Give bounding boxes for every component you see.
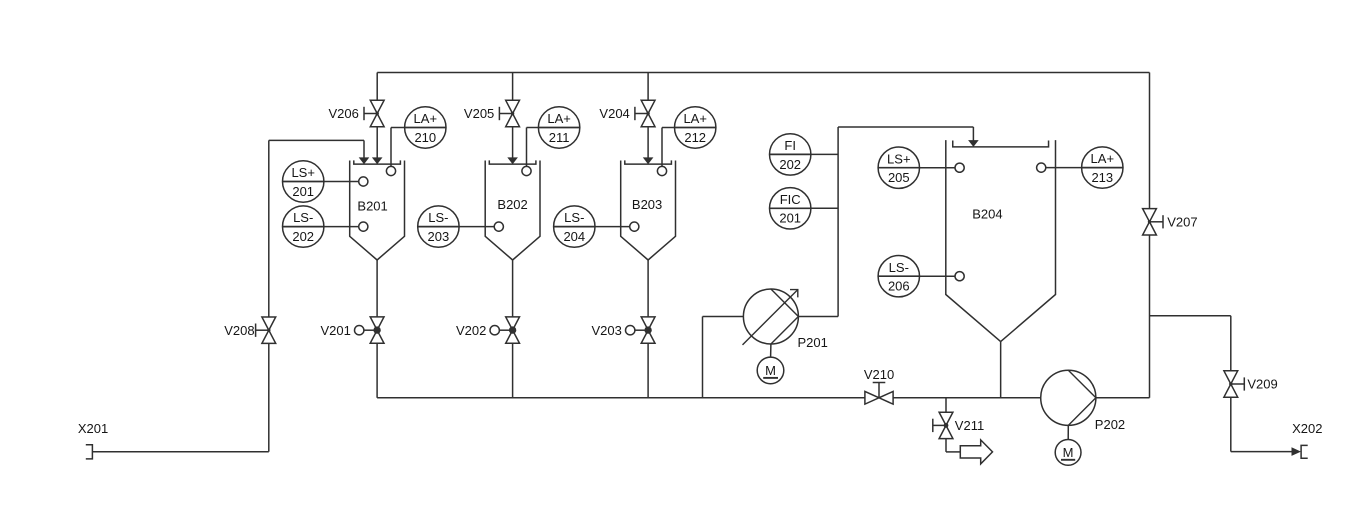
valve V210 xyxy=(865,391,879,404)
wire X201 to riser xyxy=(92,451,268,453)
valve V209 xyxy=(1224,371,1238,384)
wire LA+ 211 elbow to tank nozzle xyxy=(527,127,539,129)
instrument LS- 204 xyxy=(554,206,595,247)
svg-text:V202: V202 xyxy=(456,323,486,338)
nozzle for LA+ 211 xyxy=(522,166,531,175)
wire LS+ 205 to B204 nozzle xyxy=(920,167,960,169)
pump P201 internal chords xyxy=(771,289,799,317)
valve V205 xyxy=(506,100,520,113)
svg-text:LS-: LS- xyxy=(293,210,313,225)
svg-text:B202: B202 xyxy=(497,197,527,212)
instrument FIC 201 xyxy=(770,188,811,229)
inlet arrow into tank at V205 xyxy=(507,157,518,164)
wire branch down to V211 xyxy=(945,398,947,412)
wire B204 feed top line xyxy=(838,126,973,128)
svg-text:202: 202 xyxy=(779,157,801,172)
svg-text:LS-: LS- xyxy=(564,210,584,225)
svg-text:202: 202 xyxy=(292,229,314,244)
valve V206 xyxy=(370,100,384,113)
inlet arrow into B201 (left feed) xyxy=(359,157,370,164)
wire elbow to B201 inlet xyxy=(269,139,364,141)
wire right riser from header down to V207 xyxy=(1149,73,1151,209)
actuator circle of V203 xyxy=(626,326,635,335)
instrument LA+ 210 xyxy=(405,107,446,148)
svg-text:M: M xyxy=(1063,445,1074,460)
wire drop from header to V205 xyxy=(512,73,514,101)
svg-text:LS-: LS- xyxy=(889,260,909,275)
svg-text:V207: V207 xyxy=(1167,214,1197,229)
valve V201 xyxy=(370,317,384,330)
svg-text:LS+: LS+ xyxy=(291,165,315,180)
drain block arrow xyxy=(960,440,992,464)
inlet arrow into B204 xyxy=(968,140,979,147)
wire V204 outlet into tank xyxy=(647,127,649,159)
svg-text:206: 206 xyxy=(888,279,910,294)
instrument LS- 203 xyxy=(418,206,459,247)
nozzle for LA+ 212 xyxy=(657,166,666,175)
actuator circle of V201 xyxy=(355,326,364,335)
node X201 connection bracket xyxy=(86,445,93,459)
svg-text:V204: V204 xyxy=(599,106,629,121)
wire drop from header to V204 xyxy=(647,73,649,101)
svg-text:V206: V206 xyxy=(329,106,359,121)
wire V tank outlet down to valve xyxy=(376,260,378,317)
svg-text:LA+: LA+ xyxy=(547,111,571,126)
wire drop from header to V206 xyxy=(376,73,378,101)
nozzle on B201 for LS+ 201 xyxy=(359,177,368,186)
svg-text:LA+: LA+ xyxy=(1091,151,1115,166)
instrument LS+ 205 xyxy=(878,147,919,188)
svg-text:V211: V211 xyxy=(955,418,984,433)
wire B204 outlet to main line xyxy=(1000,342,1002,398)
nozzle on B204 for LS- 206 xyxy=(955,272,964,281)
wire riser from main line to P201 inlet xyxy=(702,317,704,398)
svg-text:LS+: LS+ xyxy=(887,151,911,166)
wire V206 outlet into tank xyxy=(376,127,378,159)
arrowhead at X202 xyxy=(1292,447,1302,456)
wire main bottom line (P202 to right riser) xyxy=(1096,397,1150,399)
nozzle on B204 for LA+ 213 xyxy=(1037,163,1046,172)
wire top header line xyxy=(377,72,1149,74)
pump P201 diagonal control arrow xyxy=(743,290,798,345)
wire LS- 204 to B203 nozzle xyxy=(595,226,634,228)
nozzle on B201 for LS- 202 xyxy=(359,222,368,231)
pump P202 internal chords xyxy=(1068,370,1096,398)
nozzle on B204 for LS+ 205 xyxy=(955,163,964,172)
valve V211 xyxy=(939,412,953,425)
inlet arrow into tank at V206 xyxy=(372,157,383,164)
wire riser P201 outlet up to B204 feed xyxy=(837,127,839,317)
wire FI 202 to riser xyxy=(811,153,838,155)
instrument LS- 206 xyxy=(878,256,919,297)
svg-text:LA+: LA+ xyxy=(683,111,707,126)
svg-text:V205: V205 xyxy=(464,106,494,121)
instrument LA+ 211 xyxy=(538,107,579,148)
svg-text:B203: B203 xyxy=(632,197,662,212)
nozzle on B202 for LS- 203 xyxy=(494,222,503,231)
valve V207 xyxy=(1143,209,1157,222)
svg-text:205: 205 xyxy=(888,170,910,185)
wire V202 outlet to main line xyxy=(512,344,514,398)
svg-text:212: 212 xyxy=(684,130,706,145)
instrument FI 202 xyxy=(770,134,811,175)
instrument LA+ 212 xyxy=(675,107,716,148)
wire V tank outlet down to valve xyxy=(647,260,649,317)
svg-text:X201: X201 xyxy=(78,421,108,436)
wire main bottom line (left of V210) xyxy=(377,397,865,399)
wire LS+ 201 to B201 nozzle xyxy=(324,181,363,183)
svg-text:V208: V208 xyxy=(224,323,254,338)
svg-text:V209: V209 xyxy=(1247,377,1277,392)
wire LA+ 212 elbow to tank nozzle xyxy=(662,127,675,129)
svg-text:FIC: FIC xyxy=(780,192,801,207)
svg-text:211: 211 xyxy=(549,130,570,145)
wire riser X201 up to V208 xyxy=(268,344,270,452)
inlet arrow into tank at V204 xyxy=(643,157,654,164)
valve V203 xyxy=(641,317,655,330)
svg-text:P202: P202 xyxy=(1095,417,1125,432)
wire LS- 206 to B204 nozzle xyxy=(920,275,960,277)
wire V201 outlet to main line xyxy=(376,344,378,398)
wire LA+ 213 to B204 nozzle xyxy=(1041,167,1081,169)
wire V211 to drain arrow xyxy=(945,439,947,452)
nozzle for LA+ 210 xyxy=(386,166,395,175)
wire main bottom line (V210 to P202) xyxy=(893,397,1041,399)
tank B203 xyxy=(621,161,648,261)
pump P201 circle xyxy=(743,289,798,344)
wire LS- 202 to B201 nozzle xyxy=(324,226,363,228)
svg-text:LS-: LS- xyxy=(428,210,448,225)
svg-text:V201: V201 xyxy=(321,323,351,338)
wire V205 outlet into tank xyxy=(512,127,514,159)
svg-text:203: 203 xyxy=(428,229,450,244)
valve V204 xyxy=(641,100,655,113)
wire LS- 203 to B202 nozzle xyxy=(459,226,499,228)
wire V207 down to main line xyxy=(1149,235,1151,398)
svg-text:B204: B204 xyxy=(972,207,1002,222)
svg-text:FI: FI xyxy=(784,138,796,153)
motor M of P201 xyxy=(770,344,772,357)
wire LA+ 210 elbow to tank nozzle xyxy=(391,127,405,129)
tank B204 xyxy=(946,140,1001,342)
tank B201 xyxy=(350,161,377,261)
svg-text:201: 201 xyxy=(292,184,314,199)
pump P202 circle xyxy=(1041,370,1096,425)
wire V tank outlet down to valve xyxy=(512,260,514,317)
svg-text:V210: V210 xyxy=(864,367,894,382)
svg-text:P201: P201 xyxy=(798,335,828,350)
wire P201 outlet to riser xyxy=(798,316,838,318)
instrument LS- 202 xyxy=(283,206,324,247)
svg-text:M: M xyxy=(765,363,776,378)
svg-text:213: 213 xyxy=(1091,170,1113,185)
svg-text:X202: X202 xyxy=(1292,421,1322,436)
instrument LS+ 201 xyxy=(283,161,324,202)
wire V208 up to top elbow xyxy=(268,140,270,316)
svg-text:204: 204 xyxy=(563,229,585,244)
wire FIC 201 to riser xyxy=(811,207,838,209)
svg-text:201: 201 xyxy=(779,211,801,226)
svg-text:B201: B201 xyxy=(357,199,387,214)
valve V202 xyxy=(506,317,520,330)
node X202 connection bracket xyxy=(1301,445,1308,458)
instrument LA+ 213 xyxy=(1082,147,1123,188)
tank B202 xyxy=(485,161,512,261)
motor M of P202 xyxy=(1067,425,1069,439)
wire V209 down and to X202 xyxy=(1230,397,1232,451)
svg-text:LA+: LA+ xyxy=(414,111,438,126)
svg-text:V203: V203 xyxy=(592,323,622,338)
nozzle on B203 for LS- 204 xyxy=(630,222,639,231)
actuator circle of V202 xyxy=(490,326,499,335)
wire branch to V209 xyxy=(1150,315,1231,317)
wire V203 outlet to main line xyxy=(647,344,649,398)
svg-text:210: 210 xyxy=(414,130,436,145)
valve V208 xyxy=(262,317,276,330)
